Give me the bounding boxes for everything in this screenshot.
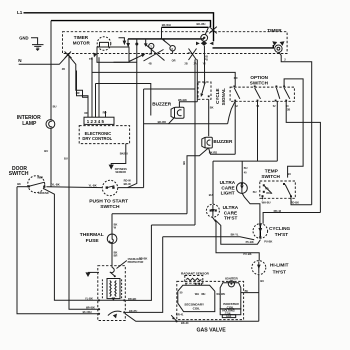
wire ultra thst bottom bbox=[212, 217, 259, 261]
svg-text:BR: BR bbox=[114, 253, 118, 257]
wire x195 long bbox=[194, 60, 196, 226]
svg-text:2B: 2B bbox=[62, 68, 65, 71]
svg-text:TH'ST: TH'ST bbox=[224, 216, 237, 221]
svg-text:TH'ST: TH'ST bbox=[273, 269, 286, 274]
EDC pin risers bbox=[77, 71, 89, 118]
svg-text:PU-BK: PU-BK bbox=[246, 240, 254, 244]
svg-text:DRY CONTROL: DRY CONTROL bbox=[82, 136, 112, 141]
svg-text:BU: BU bbox=[44, 149, 48, 153]
wire y72.4 EDC to option bbox=[92, 72, 235, 86]
timer junction dot bbox=[135, 43, 138, 46]
svg-text:BK/BU: BK/BU bbox=[120, 152, 128, 156]
cycle signal switch bbox=[198, 82, 211, 99]
wire option3 drop bbox=[276, 101, 278, 161]
svg-text:IGNITER: IGNITER bbox=[225, 277, 238, 281]
wire y225 bbox=[151, 224, 195, 226]
wire door line bbox=[17, 186, 30, 188]
wire motor right to y225 bbox=[126, 225, 152, 300]
svg-text:BK-RD: BK-RD bbox=[209, 150, 217, 154]
svg-text:RD-42: RD-42 bbox=[274, 209, 282, 213]
svg-text:SWITCH: SWITCH bbox=[9, 171, 29, 177]
svg-text:RD-BK: RD-BK bbox=[139, 257, 147, 261]
svg-text:OR: OR bbox=[84, 111, 88, 115]
wire booster to hilimit bbox=[241, 292, 259, 294]
motor windings bbox=[107, 279, 120, 299]
motor centrifugal switch bbox=[112, 299, 114, 301]
dryness sensor ground bbox=[109, 165, 114, 170]
svg-text:ULTRA: ULTRA bbox=[220, 180, 236, 185]
wire option2 drop bbox=[257, 101, 259, 161]
wire light feed bbox=[241, 161, 243, 183]
svg-text:SWITCH: SWITCH bbox=[100, 204, 120, 210]
svg-text:BUZZER: BUZZER bbox=[213, 139, 233, 144]
wire motor right to y236.8 bbox=[126, 237, 163, 313]
svg-text:WH-BK: WH-BK bbox=[178, 98, 187, 102]
wire fuse bottom bbox=[111, 243, 113, 266]
svg-text:PB: PB bbox=[205, 59, 209, 62]
wire y83.5 EDC bbox=[96, 84, 151, 116]
svg-text:L1: L1 bbox=[17, 10, 23, 15]
svg-text:CARE: CARE bbox=[221, 185, 234, 190]
wire L1 tap bus y20 bbox=[51, 21, 211, 27]
svg-text:RD-W: RD-W bbox=[124, 179, 132, 183]
svg-text:CARE: CARE bbox=[224, 210, 237, 215]
circled terminal 2 bbox=[170, 46, 175, 51]
gas valve assembly bbox=[177, 281, 244, 319]
timer cam contact 1 bbox=[145, 39, 147, 45]
svg-text:PROTECTOR: PROTECTOR bbox=[128, 261, 144, 264]
svg-text:BR: BR bbox=[76, 91, 80, 95]
svg-text:BK: BK bbox=[210, 105, 214, 109]
svg-text:NER: NER bbox=[38, 176, 44, 180]
timer bus y39 bbox=[128, 38, 204, 40]
svg-text:PU-BK: PU-BK bbox=[264, 240, 272, 244]
wire x143.6 bbox=[143, 89, 145, 188]
secondary coil bbox=[178, 285, 215, 311]
svg-text:GAS VALVE: GAS VALVE bbox=[197, 328, 227, 334]
electronic dry control bbox=[79, 126, 129, 144]
svg-text:SIGNAL: SIGNAL bbox=[221, 88, 226, 106]
svg-text:BU: BU bbox=[53, 105, 57, 109]
svg-text:GND: GND bbox=[19, 36, 28, 41]
ultra care thst bbox=[206, 204, 219, 217]
wire buzzer2 bottom left bbox=[187, 148, 209, 214]
svg-text:BU: BU bbox=[260, 279, 264, 283]
svg-text:BU: BU bbox=[209, 193, 213, 197]
svg-text:BU-WH: BU-WH bbox=[83, 310, 92, 314]
push to start switch bbox=[102, 180, 117, 195]
wire EDC output to dryness sensor bbox=[111, 144, 126, 165]
wire y161 bus bbox=[213, 160, 277, 162]
svg-text:BU: BU bbox=[245, 290, 249, 293]
svg-text:BK-YL: BK-YL bbox=[231, 233, 239, 237]
wire x136.8 EDC/PTS feed bbox=[128, 44, 137, 188]
wire N to EDC pin1 bbox=[68, 55, 88, 117]
circled terminal T bbox=[275, 45, 282, 52]
svg-text:RD: RD bbox=[265, 187, 269, 190]
svg-text:BK-WH: BK-WH bbox=[197, 22, 206, 26]
svg-text:SWITCH: SWITCH bbox=[250, 80, 269, 85]
svg-text:BU: BU bbox=[244, 167, 248, 170]
svg-text:BU: BU bbox=[253, 191, 257, 194]
wire left outer drop x17 bbox=[17, 187, 98, 314]
svg-text:SENSOR: SENSOR bbox=[115, 171, 126, 174]
wire option4 top feed bbox=[284, 79, 303, 178]
radiant sensor leads bbox=[185, 283, 187, 285]
svg-text:YL-BK: YL-BK bbox=[85, 296, 93, 300]
wire ultra care thst feed bbox=[212, 161, 214, 204]
wire y89 bbox=[144, 88, 195, 90]
svg-text:TH'ST: TH'ST bbox=[275, 232, 288, 237]
svg-text:THERMAL: THERMAL bbox=[80, 232, 104, 238]
wire door ground branch x54 bbox=[44, 189, 98, 300]
motor chassis ground bbox=[88, 271, 99, 273]
label BK vertical bbox=[182, 161, 186, 165]
timer contact row y47.5 bbox=[213, 45, 274, 48]
svg-text:TEMP: TEMP bbox=[265, 168, 278, 173]
wire motor to gas valve bottom bbox=[125, 314, 258, 321]
svg-text:MOTOR: MOTOR bbox=[73, 41, 91, 46]
wire x220.8 riser bbox=[215, 220, 261, 245]
wire buzzer1 top bbox=[179, 102, 197, 108]
holding coil bbox=[220, 309, 241, 315]
svg-text:WH-BK: WH-BK bbox=[86, 305, 95, 309]
wire y236.8 bbox=[163, 237, 255, 240]
overload protector bbox=[111, 266, 113, 268]
hi-limit thst bbox=[252, 261, 266, 275]
svg-text:SWITCH: SWITCH bbox=[261, 174, 280, 179]
svg-text:RD: RD bbox=[103, 110, 107, 114]
wire x68.5 drop bbox=[68, 56, 70, 187]
timer cam blade at motor bbox=[129, 55, 144, 62]
svg-text:3B: 3B bbox=[287, 109, 290, 112]
wire x197 buzzer riser bbox=[196, 60, 198, 102]
wire left vertical main bbox=[50, 21, 52, 120]
circled terminal 1 bbox=[149, 43, 154, 48]
option contacts bbox=[233, 86, 235, 88]
svg-text:WH: WH bbox=[221, 293, 225, 296]
wire timer motor right jog bbox=[114, 61, 137, 63]
ultra care light bbox=[237, 183, 248, 194]
drive motor M1 bbox=[98, 266, 126, 321]
svg-text:WH: WH bbox=[195, 293, 199, 296]
svg-text:OR: OR bbox=[172, 59, 176, 63]
svg-text:FUSE: FUSE bbox=[86, 238, 100, 244]
svg-text:CYCLE: CYCLE bbox=[215, 88, 220, 104]
svg-text:COIL: COIL bbox=[193, 306, 201, 310]
svg-text:BU: BU bbox=[64, 157, 68, 161]
svg-text:CYCLING: CYCLING bbox=[269, 226, 290, 231]
svg-text:YL-BK: YL-BK bbox=[52, 183, 60, 187]
wire y212.5 to cycling bbox=[263, 213, 320, 224]
wire S-curve to option1 bbox=[228, 101, 236, 124]
svg-text:BK-WH: BK-WH bbox=[162, 23, 171, 27]
wire timer output to x312 bbox=[279, 52, 312, 205]
timer L1 contact cluster bbox=[201, 41, 207, 46]
svg-text:BK: BK bbox=[17, 182, 21, 186]
wire light bottom bbox=[242, 193, 260, 223]
cycling thst bbox=[253, 224, 268, 239]
svg-text:GROUND: GROUND bbox=[38, 192, 49, 195]
timer wire y27 bbox=[162, 26, 209, 28]
svg-text:GAS: GAS bbox=[226, 315, 232, 318]
svg-text:RADIANT SENSOR: RADIANT SENSOR bbox=[181, 271, 210, 275]
wire temp out bbox=[290, 198, 292, 205]
wire timer motor leads bbox=[91, 57, 93, 117]
gas valve left terminals bbox=[172, 317, 174, 319]
buzzer B2 bbox=[202, 137, 205, 148]
svg-text:TIMER: TIMER bbox=[74, 35, 89, 40]
svg-text:YL-BK: YL-BK bbox=[89, 184, 97, 188]
svg-text:PU-BK: PU-BK bbox=[243, 252, 251, 256]
wire buzzer2 to option1 bbox=[209, 148, 236, 154]
timer motor TM bbox=[97, 37, 111, 51]
node N star junction bbox=[65, 52, 72, 59]
svg-text:BK-RD: BK-RD bbox=[158, 120, 166, 124]
svg-text:RD: RD bbox=[234, 76, 238, 80]
wire y123.8 bbox=[144, 123, 228, 125]
wire fuse top bbox=[111, 214, 113, 235]
svg-text:BK-W: BK-W bbox=[124, 182, 132, 186]
svg-text:PUSH TO START: PUSH TO START bbox=[89, 198, 128, 204]
svg-text:BUZZER: BUZZER bbox=[152, 101, 172, 106]
svg-text:RD-BK: RD-BK bbox=[291, 201, 299, 205]
wire option4 drop loop bbox=[286, 101, 320, 212]
wire L1 feed bbox=[24, 13, 214, 42]
wire PTS out bbox=[118, 187, 144, 189]
svg-text:LIGHT: LIGHT bbox=[221, 191, 235, 196]
timer box bbox=[63, 32, 288, 54]
timer cam contact motor side bbox=[119, 38, 125, 41]
svg-text:BK: BK bbox=[182, 161, 186, 165]
wire cycle signal out to buzzer2 bbox=[208, 99, 210, 136]
timer cam X2 bbox=[189, 49, 197, 61]
svg-text:RD2: RD2 bbox=[266, 192, 271, 195]
timer cam X blades bbox=[146, 45, 165, 61]
svg-text:WH: WH bbox=[201, 293, 205, 296]
svg-text:BK-30: BK-30 bbox=[181, 321, 189, 325]
svg-text:OPTION: OPTION bbox=[250, 75, 268, 80]
svg-text:HI-LIMIT: HI-LIMIT bbox=[270, 263, 289, 268]
svg-text:BU: BU bbox=[287, 172, 291, 176]
svg-text:TIMER: TIMER bbox=[267, 28, 282, 33]
svg-text:1 2 3 4 5: 1 2 3 4 5 bbox=[87, 119, 105, 124]
wire thermal line y213.7 bbox=[112, 213, 187, 215]
svg-text:LAMP: LAMP bbox=[22, 121, 37, 127]
svg-text:4B: 4B bbox=[149, 63, 152, 66]
wire N feed bbox=[19, 55, 68, 65]
booster coil bbox=[220, 283, 241, 309]
interior lamp C1 bbox=[46, 120, 55, 129]
wire hilimit bottom bbox=[258, 275, 260, 322]
svg-text:2B: 2B bbox=[185, 63, 188, 66]
